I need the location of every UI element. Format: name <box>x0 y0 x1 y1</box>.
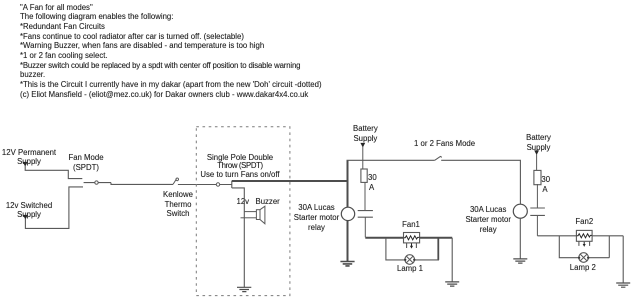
wire: fuse1 to contact <box>364 183 366 211</box>
ground: buzzer <box>237 287 251 291</box>
wire: fuse2 to contact <box>536 184 538 208</box>
wire: lamp1 left tap <box>386 238 405 260</box>
buzzer top lead <box>244 211 256 213</box>
buzzer cone <box>260 206 265 224</box>
wire: top rail to 1or2 fans switch <box>347 159 435 161</box>
ground: relay 1 <box>340 262 354 266</box>
fan 2 body <box>576 230 592 241</box>
label: Battery Supply (relay 1) <box>315 124 415 143</box>
junction dots lamp 2 <box>578 257 580 259</box>
wire: contact2 to fan2 row <box>536 215 538 235</box>
label: Lamp 1 <box>360 264 460 274</box>
wire: 12v switched supply to SPDT lower contact <box>25 187 83 229</box>
12V permanent supply feed arrow <box>23 162 28 167</box>
buzzer body rectangle <box>256 210 260 220</box>
wire: fan2 power row <box>537 235 623 237</box>
junction step at node to relay wire <box>231 181 233 188</box>
relay 2 contact bars <box>530 208 545 215</box>
battery supply 1 arrow <box>360 143 365 148</box>
fan 1 airflow arrow <box>411 243 413 246</box>
label: Single Pole Double Throw (SPDT) switch note <box>184 154 296 180</box>
lamp 2 cross <box>580 254 587 261</box>
label: 30A Lucas Starter motor relay 2 <box>438 205 538 234</box>
label: Lamp 2 <box>533 263 633 273</box>
battery supply 2 arrow <box>534 150 539 155</box>
label: 12v Switched Supply <box>0 201 79 220</box>
lamp 2 circle <box>579 253 589 263</box>
switch: fans on/off pivot circle <box>216 183 219 186</box>
lamp 1 cross <box>406 256 413 263</box>
fan 1 body <box>404 233 420 243</box>
relay 1 contact bars <box>358 211 373 218</box>
label: 12V Permanent Supply <box>0 148 79 167</box>
fan 1 legs <box>407 243 417 248</box>
label: Kenlowe Thermo Switch <box>128 190 228 219</box>
wire: 12V permanent supply to SPDT upper contact <box>25 166 82 179</box>
wire: fan1 row to ground <box>451 238 453 282</box>
switch Fan Mode SPDT lever <box>84 182 111 184</box>
wire: relay1 coil feed vertical (thick) <box>347 160 349 261</box>
switch: 1 or 2 fans mode lever <box>435 156 442 160</box>
12v switched supply feed arrow <box>23 215 28 220</box>
fan 2 winding zigzag <box>577 234 592 238</box>
label: Fan1 <box>361 220 461 230</box>
wire: lamp1 right tap (thick) <box>437 238 439 260</box>
wire: SPDT pole to Kenlowe thermo switch <box>111 183 173 185</box>
wire: lamp2 right tap <box>588 236 609 258</box>
ground: fan 1 <box>445 282 459 286</box>
header notes text block <box>20 3 322 100</box>
wire: main control wire to relay 1 (thick) <box>232 180 348 182</box>
label: 12v Buzzer <box>237 197 250 207</box>
wire: fan2 row to ground <box>622 236 624 283</box>
label: Fan Mode (SPDT) <box>36 153 136 172</box>
wire: fan1 power row (thick) <box>365 237 452 239</box>
wire: lamp1 right lead <box>415 259 440 261</box>
lamp 1 circle <box>405 255 415 265</box>
dotted box: new Doh circuit <box>196 127 290 296</box>
label: fuse 2 value 30 A <box>541 175 550 185</box>
buzzer bottom lead <box>241 217 257 219</box>
label: Fan2 <box>534 217 634 227</box>
label: 30A Lucas Starter motor relay 1 <box>267 203 367 232</box>
relay 2 coil circle <box>513 204 527 218</box>
wire: lamp2 left tap <box>559 236 579 258</box>
label: Battery Supply (relay 2) <box>489 133 589 152</box>
wire: relay2 coil to ground <box>519 218 521 259</box>
switch Fan Mode pivot circle <box>95 181 98 184</box>
junction dots lamp 1 <box>404 259 406 261</box>
relay 1 coil circle <box>341 207 354 220</box>
wire: battery supply 2 drop <box>536 154 538 170</box>
wire: thermo switch to on/off switch <box>178 184 232 186</box>
fan 2 airflow arrow <box>583 242 585 245</box>
fan 2 legs <box>579 241 590 246</box>
switch: Kenlowe thermo switch lever <box>173 178 179 184</box>
ground: relay 2 <box>513 259 527 263</box>
wire: battery supply 1 drop <box>362 147 364 169</box>
label: 1 or 2 Fans Mode <box>414 139 475 149</box>
fuse 2 <box>534 170 541 184</box>
wire: 1or2 switch to relay 2 <box>441 160 520 204</box>
fan 1 winding zigzag <box>404 236 420 240</box>
fuse 1 <box>361 169 367 182</box>
ground: fan 2 <box>616 283 630 287</box>
wire: buzzer branch <box>232 188 245 287</box>
label: fuse 1 value 30 A <box>368 173 377 183</box>
wire: contact1 to fan1 row <box>364 217 366 237</box>
